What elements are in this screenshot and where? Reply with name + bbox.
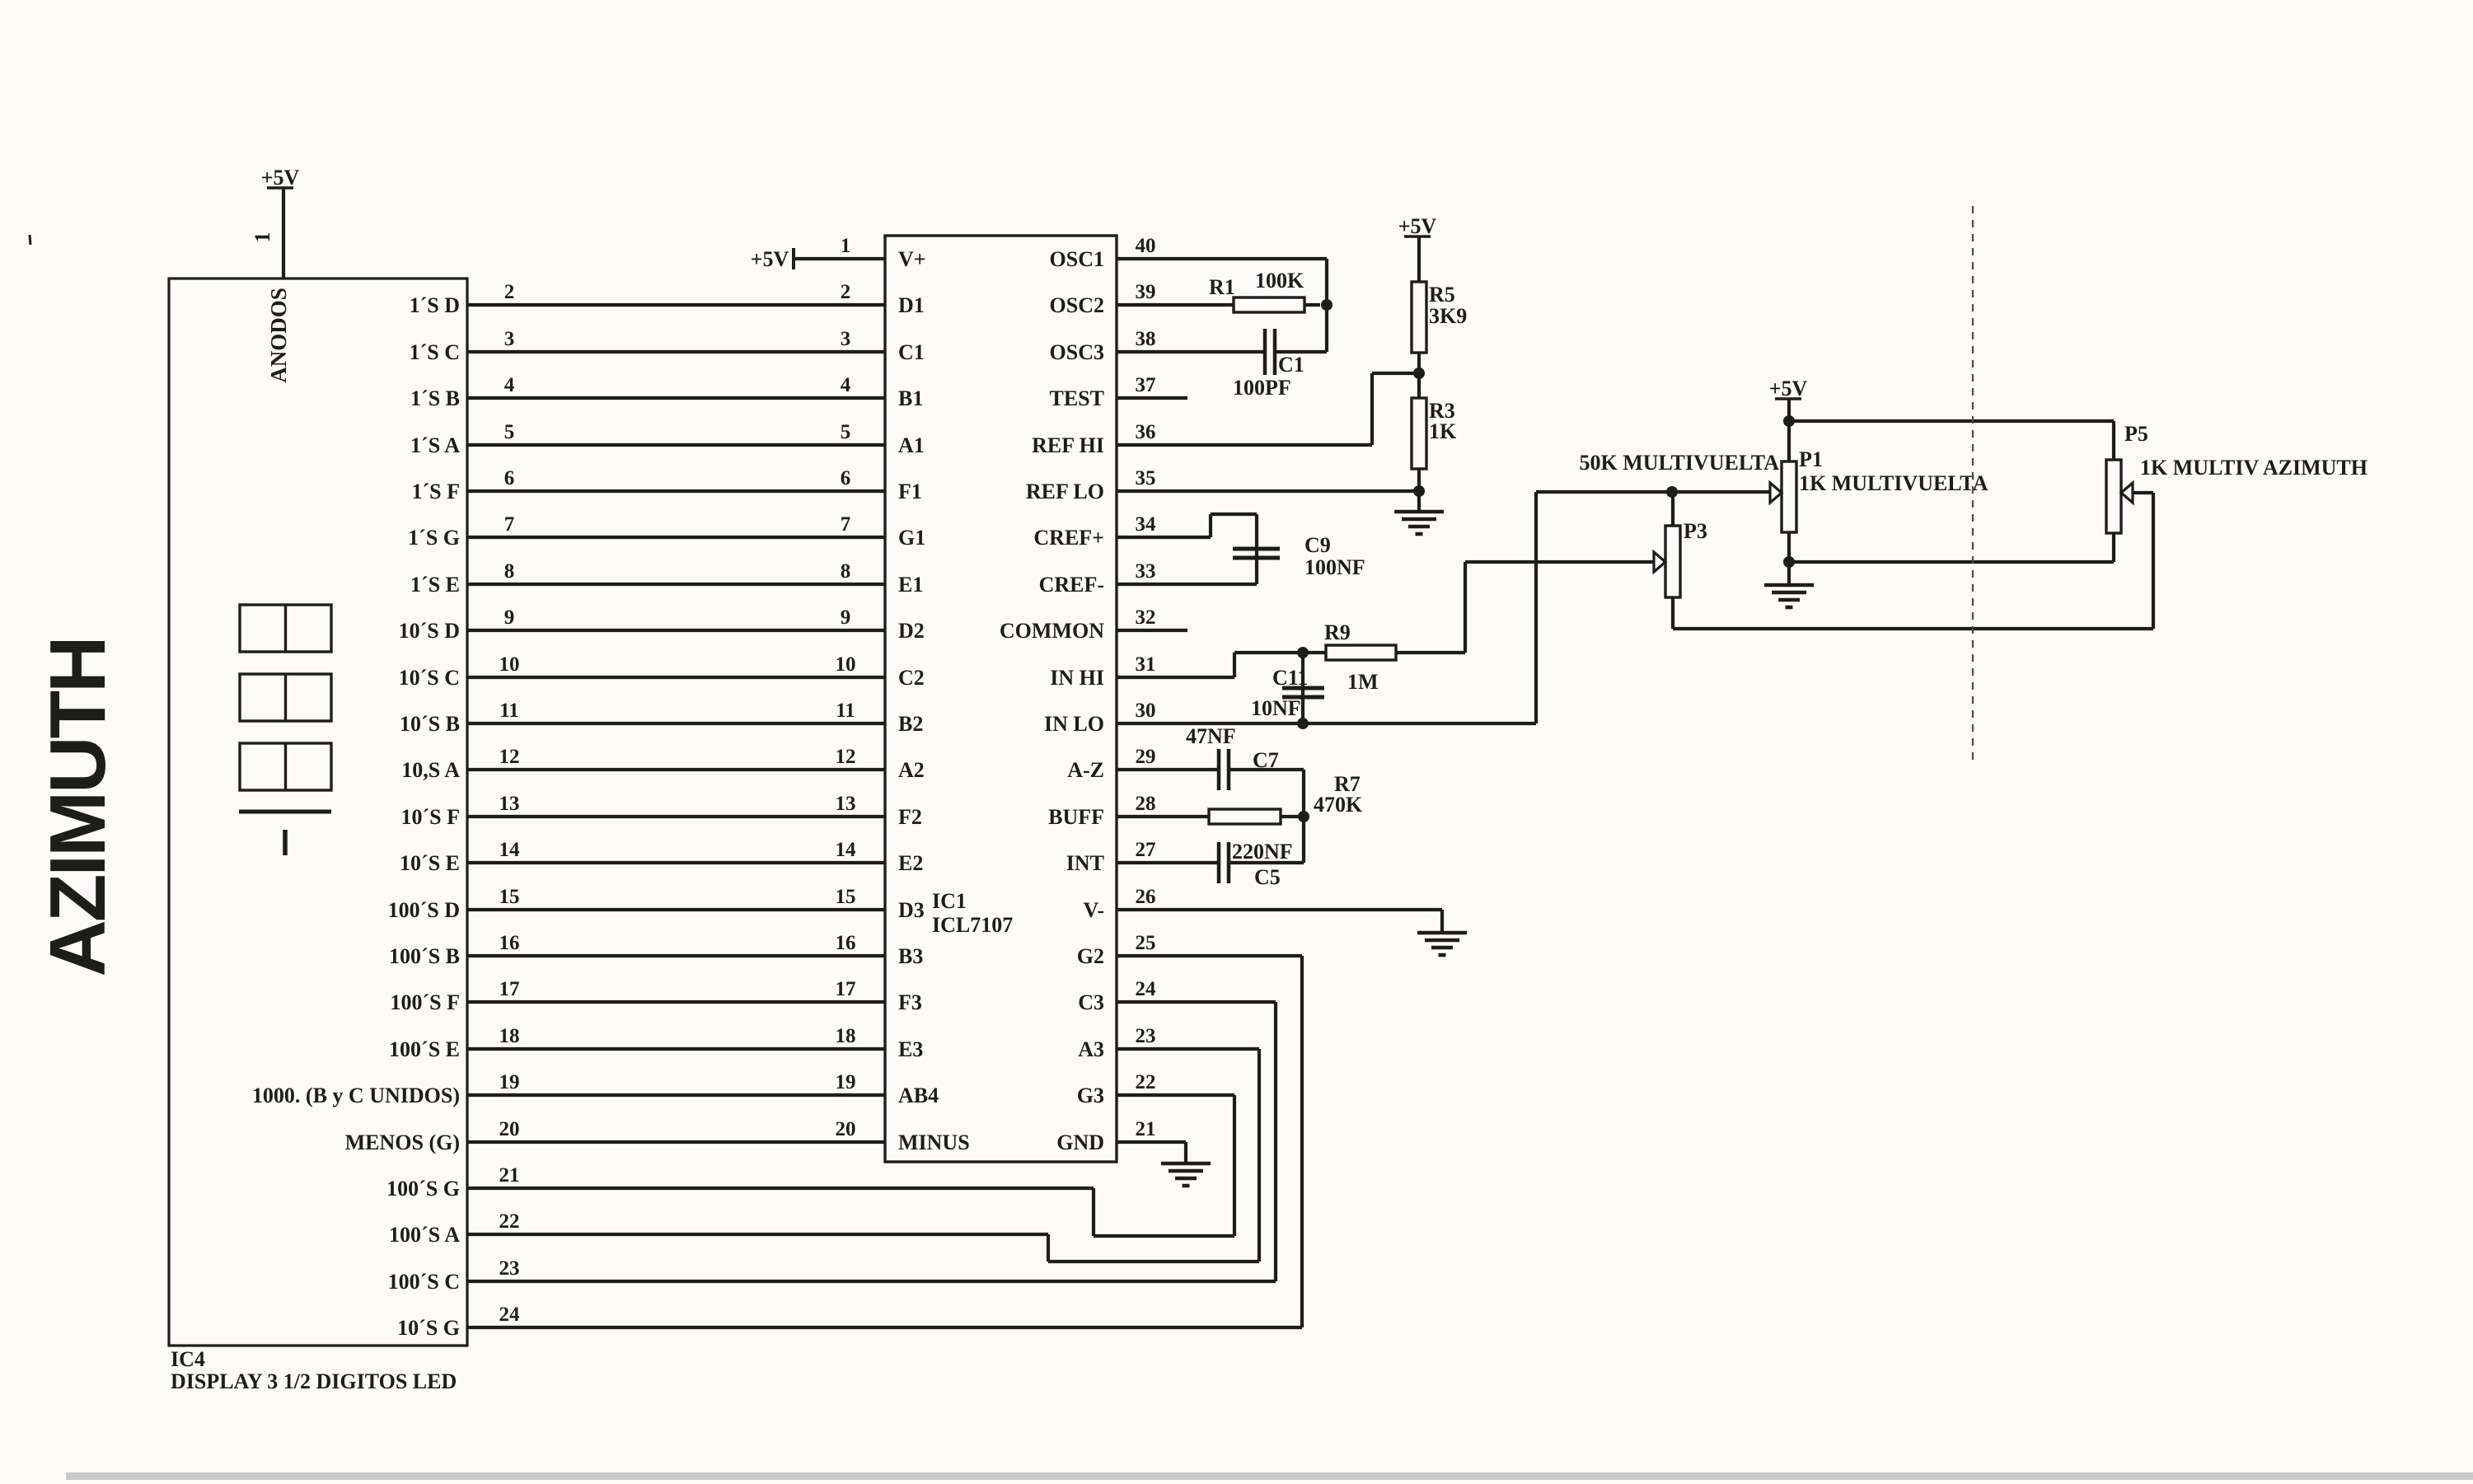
svg-text:A1: A1	[898, 433, 925, 457]
capacitor C1	[1263, 329, 1267, 375]
svg-text:10´S B: 10´S B	[400, 712, 460, 736]
wire display pin 7 to IC	[467, 536, 885, 539]
node IN LO / C11 junction	[1297, 718, 1309, 729]
svg-text:R9: R9	[1324, 620, 1351, 644]
wire C5 to BUFF node	[1229, 861, 1304, 864]
svg-text:CREF+: CREF+	[1033, 526, 1104, 550]
display digit 8 box 2	[240, 674, 331, 721]
svg-text:17: 17	[836, 978, 856, 1000]
wire INT pin 27	[1117, 861, 1219, 864]
wire A-Z pin 29	[1117, 768, 1219, 771]
wire BUFF pin 28	[1117, 815, 1209, 818]
svg-text:GND: GND	[1056, 1131, 1104, 1154]
svg-text:20: 20	[499, 1118, 520, 1140]
svg-text:OSC2: OSC2	[1050, 293, 1104, 317]
svg-text:IN LO: IN LO	[1044, 712, 1104, 736]
svg-text:C1: C1	[898, 340, 925, 364]
svg-text:100NF: 100NF	[1304, 555, 1365, 579]
svg-text:3: 3	[841, 328, 851, 350]
wire REF LO to ground	[1417, 491, 1421, 512]
svg-text:10´S G: 10´S G	[397, 1316, 460, 1340]
svg-text:17: 17	[499, 978, 520, 1000]
svg-text:1K: 1K	[1429, 419, 1457, 443]
svg-text:A2: A2	[898, 758, 925, 782]
svg-text:7: 7	[841, 513, 851, 536]
svg-text:V+: V+	[898, 247, 926, 271]
display digit 8 box 1	[240, 605, 331, 652]
wire COMMON stub pin 32	[1117, 629, 1187, 632]
svg-text:18: 18	[836, 1025, 856, 1047]
svg-text:37: 37	[1136, 374, 1156, 396]
svg-text:26: 26	[1136, 886, 1156, 908]
wire C7 to R7 node	[1229, 768, 1304, 771]
wire +5V to display	[282, 188, 285, 279]
node P3 top tap	[1666, 486, 1678, 498]
svg-text:C3: C3	[1078, 990, 1104, 1014]
wire display pin 11 to IC	[467, 722, 885, 725]
svg-text:7: 7	[504, 513, 515, 536]
svg-text:20: 20	[836, 1118, 856, 1140]
svg-text:9: 9	[504, 606, 515, 629]
svg-text:15: 15	[499, 886, 520, 908]
wire display pin 17 to IC	[467, 1000, 885, 1004]
svg-text:27: 27	[1136, 839, 1156, 861]
svg-text:AB4: AB4	[898, 1084, 939, 1107]
svg-text:47NF: 47NF	[1186, 724, 1236, 748]
svg-text:1´S A: 1´S A	[410, 433, 460, 457]
wire display pin 6 to IC	[467, 489, 885, 493]
svg-text:100´S A: 100´S A	[389, 1223, 460, 1247]
wire display pin 8 to IC	[467, 583, 885, 586]
svg-text:23: 23	[499, 1257, 520, 1280]
svg-text:D1: D1	[898, 293, 925, 317]
svg-text:B2: B2	[898, 712, 923, 736]
svg-text:24: 24	[499, 1304, 521, 1326]
node BUFF junction	[1298, 811, 1309, 822]
svg-text:12: 12	[499, 746, 520, 768]
svg-text:MINUS: MINUS	[898, 1131, 970, 1154]
svg-text:100´S C: 100´S C	[388, 1270, 460, 1294]
svg-text:F2: F2	[898, 805, 922, 829]
ground P1	[1764, 585, 1814, 607]
svg-text:39: 39	[1136, 281, 1156, 303]
capacitor C5	[1217, 842, 1221, 883]
wire G2 pin 25 to display pin 24	[1117, 954, 1302, 957]
wire REF HI pin 36	[1117, 443, 1372, 447]
wire V- to ground	[1440, 910, 1444, 932]
svg-text:C11: C11	[1272, 666, 1308, 690]
svg-text:13: 13	[499, 793, 520, 815]
svg-text:1´S F: 1´S F	[412, 480, 461, 503]
speck left margin	[30, 235, 30, 245]
svg-text:50K MULTIVUELTA: 50K MULTIVUELTA	[1580, 451, 1780, 475]
svg-text:10´S E: 10´S E	[400, 851, 460, 875]
wire P3 bottom to P5 wiper	[1671, 597, 1674, 629]
wire display pin 15 to IC	[467, 908, 885, 911]
svg-text:100´S F: 100´S F	[391, 990, 461, 1014]
svg-text:25: 25	[1136, 932, 1156, 954]
svg-text:F3: F3	[898, 990, 922, 1014]
node P1 bottom junction	[1783, 556, 1795, 568]
svg-text:30: 30	[1136, 700, 1156, 722]
wire display pin 14 to IC	[467, 861, 885, 864]
svg-text:D3: D3	[898, 898, 925, 922]
svg-text:B3: B3	[898, 944, 923, 968]
wire display pin 19 to IC	[467, 1093, 885, 1097]
wire display pin 20 to IC	[467, 1140, 885, 1144]
svg-text:5: 5	[841, 421, 851, 443]
svg-text:A-Z: A-Z	[1067, 758, 1104, 782]
wire +5V rail to P5	[1789, 419, 2114, 423]
ground V-	[1417, 933, 1467, 955]
svg-text:100´S D: 100´S D	[388, 898, 460, 922]
svg-text:+5V: +5V	[751, 247, 789, 271]
svg-text:18: 18	[499, 1025, 520, 1047]
wire OSC2 pin 39	[1117, 303, 1234, 307]
wire OSC1 down to oscillator node	[1325, 259, 1328, 352]
svg-text:1K MULTIVUELTA: 1K MULTIVUELTA	[1799, 471, 1988, 495]
svg-text:6: 6	[841, 467, 851, 489]
svg-text:11: 11	[499, 700, 519, 722]
svg-text:6: 6	[504, 467, 515, 489]
svg-text:21: 21	[1136, 1118, 1156, 1140]
svg-text:IN HI: IN HI	[1050, 666, 1104, 690]
svg-text:3K9: 3K9	[1429, 304, 1467, 328]
svg-text:R1: R1	[1209, 275, 1235, 299]
svg-text:G3: G3	[1077, 1084, 1104, 1107]
svg-text:IC4: IC4	[171, 1347, 205, 1371]
svg-text:1´S G: 1´S G	[408, 526, 460, 550]
potentiometer P3 body	[1665, 526, 1680, 597]
svg-text:OSC1: OSC1	[1050, 247, 1104, 271]
node P1 top	[1783, 415, 1795, 427]
svg-text:19: 19	[836, 1071, 856, 1093]
svg-text:34: 34	[1136, 513, 1157, 536]
display digit 8 box 3	[240, 743, 331, 790]
wiper arrow P5	[2121, 483, 2133, 503]
svg-text:10NF: 10NF	[1251, 696, 1301, 720]
svg-text:ICL7107: ICL7107	[932, 913, 1013, 937]
wire +5V to P1 node	[1787, 399, 1791, 461]
svg-text:14: 14	[499, 839, 521, 861]
svg-text:1´S D: 1´S D	[410, 293, 460, 317]
svg-text:4: 4	[841, 374, 851, 396]
wire display pin 12 to IC	[467, 768, 885, 771]
svg-text:BUFF: BUFF	[1048, 805, 1104, 829]
svg-text:MENOS (G): MENOS (G)	[345, 1131, 460, 1154]
wire R1 to node	[1304, 303, 1320, 307]
svg-text:8: 8	[841, 560, 851, 583]
svg-text:100´S G: 100´S G	[386, 1177, 460, 1201]
capacitor C11	[1282, 686, 1324, 691]
wire display pin 18 to IC	[467, 1047, 885, 1051]
svg-text:E2: E2	[898, 851, 923, 875]
potentiometer P5 body	[2106, 460, 2121, 533]
svg-text:1´S B: 1´S B	[410, 386, 460, 410]
node R5/R3 junction	[1413, 367, 1425, 379]
wire +5V to R5	[1417, 236, 1421, 282]
ground GND	[1161, 1163, 1211, 1186]
wire R7 to node	[1281, 815, 1304, 818]
svg-text:10: 10	[836, 653, 856, 676]
svg-text:REF HI: REF HI	[1032, 433, 1104, 457]
wire A3 pin 23 to display pin 22	[1117, 1047, 1259, 1051]
svg-text:A3: A3	[1078, 1037, 1104, 1061]
wire display pin 5 to IC	[467, 443, 885, 447]
svg-text:100´S B: 100´S B	[389, 944, 460, 968]
svg-text:28: 28	[1136, 793, 1156, 815]
svg-text:CREF-: CREF-	[1039, 573, 1104, 597]
resistor R9	[1326, 645, 1396, 660]
wire TEST stub pin 37	[1117, 396, 1187, 400]
svg-text:DISPLAY 3 1/2 DIGITOS LED: DISPLAY 3 1/2 DIGITOS LED	[171, 1369, 457, 1393]
svg-text:COMMON: COMMON	[1000, 619, 1104, 643]
ground REF LO	[1394, 512, 1444, 534]
svg-text:B1: B1	[898, 386, 923, 410]
svg-text:10,S A: 10,S A	[401, 758, 460, 782]
wiper arrow P1	[1770, 483, 1782, 503]
wire GND to ground	[1184, 1142, 1187, 1163]
svg-text:REF LO: REF LO	[1026, 480, 1104, 503]
svg-text:100´S E: 100´S E	[389, 1037, 460, 1061]
svg-text:100K: 100K	[1255, 269, 1304, 293]
svg-text:2: 2	[504, 281, 515, 303]
svg-text:10: 10	[499, 653, 520, 676]
resistor R5	[1412, 282, 1426, 353]
svg-text:9: 9	[841, 606, 851, 629]
svg-text:36: 36	[1136, 421, 1156, 443]
svg-text:TEST: TEST	[1050, 386, 1105, 410]
svg-text:22: 22	[1136, 1071, 1156, 1093]
svg-text:OSC3: OSC3	[1050, 340, 1104, 364]
svg-text:1: 1	[251, 232, 274, 243]
wire OSC1 pin 40	[1117, 257, 1327, 260]
svg-text:4: 4	[504, 374, 515, 396]
svg-text:C9: C9	[1304, 533, 1331, 557]
node REF LO junction	[1413, 485, 1425, 497]
wire display pin 10 to IC	[467, 676, 885, 679]
svg-text:G2: G2	[1077, 944, 1104, 968]
svg-text:1M: 1M	[1347, 670, 1379, 694]
wire display pin 13 to IC	[467, 815, 885, 818]
svg-text:31: 31	[1136, 653, 1156, 676]
svg-text:P3: P3	[1684, 519, 1707, 543]
svg-text:33: 33	[1136, 560, 1156, 583]
svg-text:22: 22	[499, 1210, 520, 1233]
dashed fold line	[1972, 206, 1974, 762]
svg-text:16: 16	[836, 932, 856, 954]
capacitor C9	[1233, 547, 1280, 551]
node oscillator junction	[1321, 299, 1333, 311]
svg-text:1´S E: 1´S E	[410, 573, 460, 597]
svg-text:D2: D2	[898, 619, 925, 643]
svg-text:1K MULTIV AZIMUTH: 1K MULTIV AZIMUTH	[2140, 456, 2368, 480]
wire R9 to P3 wiper	[1396, 651, 1465, 654]
svg-text:1´S C: 1´S C	[410, 340, 460, 364]
svg-text:15: 15	[836, 886, 856, 908]
svg-text:AZIMUTH: AZIMUTH	[34, 639, 122, 977]
wire OSC3 pin 38	[1117, 350, 1265, 353]
wire IN HI step up	[1233, 653, 1236, 677]
wire display pin 2 to IC	[467, 303, 885, 307]
svg-text:+5V: +5V	[261, 166, 300, 190]
svg-text:3: 3	[504, 328, 515, 350]
svg-text:19: 19	[499, 1071, 520, 1093]
wire bottom rail P1 to P5	[1789, 560, 2114, 564]
svg-text:40: 40	[1136, 235, 1156, 257]
svg-text:2: 2	[841, 281, 851, 303]
page bottom edge	[66, 1472, 2473, 1480]
svg-text:+5V: +5V	[1398, 214, 1437, 238]
svg-text:35: 35	[1136, 467, 1156, 489]
svg-text:E3: E3	[898, 1037, 923, 1061]
svg-text:12: 12	[836, 746, 856, 768]
wire +5V to V+	[795, 257, 885, 260]
svg-text:IC1: IC1	[932, 889, 967, 913]
wire P3 top tap	[1671, 492, 1674, 526]
svg-text:1: 1	[841, 235, 851, 257]
wire display pin 4 to IC	[467, 396, 885, 400]
svg-text:10´S F: 10´S F	[401, 805, 461, 829]
wiper arrow P3	[1654, 552, 1665, 572]
svg-text:C2: C2	[898, 666, 925, 690]
wire CREF+ pin 34	[1117, 536, 1211, 539]
svg-text:11: 11	[836, 700, 855, 722]
node IN HI / C11 / R9 junction	[1297, 647, 1309, 658]
svg-text:R5: R5	[1429, 283, 1455, 307]
svg-text:C1: C1	[1278, 353, 1304, 377]
svg-text:10´S D: 10´S D	[399, 619, 460, 643]
wire P1 bottom	[1787, 532, 1791, 584]
wire GND pin 21	[1117, 1140, 1186, 1144]
wire display pin 9 to IC	[467, 629, 885, 632]
svg-text:C5: C5	[1254, 865, 1281, 889]
svg-text:100PF: 100PF	[1233, 376, 1291, 400]
op-amp/ADC IC1 ICL7107 body	[885, 236, 1117, 1162]
svg-text:29: 29	[1136, 746, 1156, 768]
svg-text:1000. (B y C UNIDOS): 1000. (B y C UNIDOS)	[252, 1084, 460, 1107]
svg-text:F1: F1	[898, 480, 922, 503]
display half-digit 1 segment	[283, 830, 288, 855]
display minus segment	[239, 810, 331, 814]
svg-text:ANODOS: ANODOS	[266, 288, 291, 383]
display block IC4	[169, 279, 467, 1346]
wire CREF- pin 33	[1117, 583, 1257, 586]
svg-text:220NF: 220NF	[1232, 840, 1293, 864]
wire display pin 16 to IC	[467, 954, 885, 957]
svg-text:23: 23	[1136, 1025, 1156, 1047]
svg-text:INT: INT	[1066, 851, 1104, 875]
wire display pin 3 to IC	[467, 350, 885, 353]
wire C11 lead	[1301, 653, 1304, 723]
capacitor C7	[1217, 749, 1221, 790]
svg-text:5: 5	[504, 421, 515, 443]
svg-text:13: 13	[836, 793, 856, 815]
wire CREF+ bump to C9	[1209, 514, 1212, 537]
svg-text:V-: V-	[1083, 898, 1104, 922]
wire R5 to R3	[1417, 353, 1421, 398]
wire R3 to REF LO	[1417, 469, 1421, 491]
svg-text:14: 14	[836, 839, 857, 861]
svg-text:38: 38	[1136, 328, 1156, 350]
svg-text:P1: P1	[1799, 447, 1823, 471]
wire C1 to node	[1275, 350, 1327, 353]
resistor R3	[1412, 398, 1426, 469]
wire C3 pin 24 to display pin 23	[1117, 1000, 1276, 1004]
svg-text:24: 24	[1136, 978, 1157, 1000]
svg-text:21: 21	[499, 1164, 520, 1187]
wire IN HI pin 31	[1117, 676, 1234, 679]
svg-text:10´S C: 10´S C	[399, 666, 460, 690]
resistor R1	[1234, 297, 1304, 312]
wire REF HI up to R5/R3 node	[1370, 373, 1374, 445]
wire IN LO up to wiper rail	[1534, 492, 1538, 723]
wire REF LO pin 35	[1117, 489, 1419, 493]
svg-text:+5V: +5V	[1769, 377, 1808, 400]
wire IN LO pin 30	[1117, 722, 1536, 725]
svg-text:470K: 470K	[1314, 793, 1363, 817]
svg-text:E1: E1	[898, 573, 923, 597]
svg-text:P5: P5	[2124, 422, 2148, 446]
wire V- pin 26	[1117, 908, 1442, 911]
svg-text:G1: G1	[898, 526, 925, 550]
svg-text:8: 8	[504, 560, 515, 583]
resistor R7	[1209, 809, 1281, 824]
svg-text:16: 16	[499, 932, 520, 954]
wire G3 pin 22 to display pin 21	[1117, 1093, 1234, 1097]
svg-text:32: 32	[1136, 606, 1156, 629]
potentiometer P1 body	[1782, 461, 1796, 532]
